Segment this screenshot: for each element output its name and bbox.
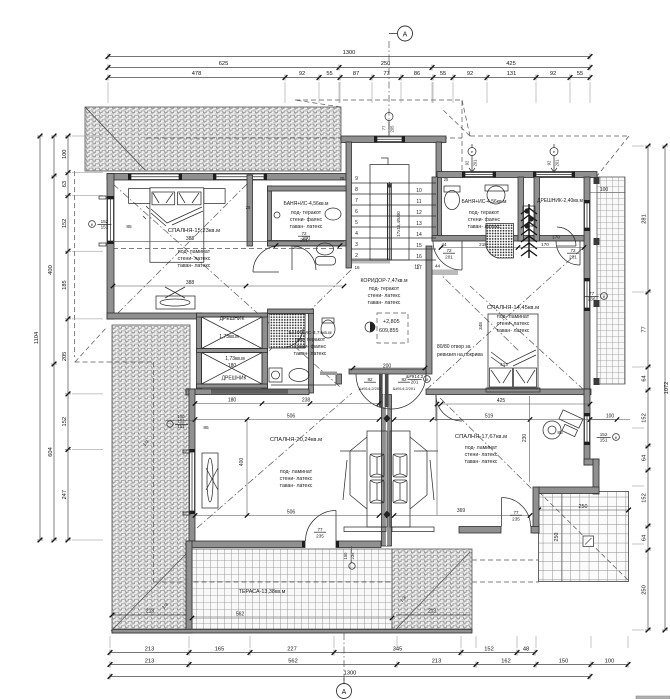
svg-text:165: 165 [215,646,225,652]
svg-text:100: 100 [606,414,615,420]
svg-text:КОРИДОР-7,47кв.м: КОРИДОР-7,47кв.м [360,278,407,284]
svg-text:1104: 1104 [34,332,40,344]
svg-text:236: 236 [350,552,355,560]
svg-text:213: 213 [146,609,155,615]
svg-text:под- ламинат: под- ламинат [497,314,530,320]
svg-text:609,855: 609,855 [379,328,399,334]
svg-text:100: 100 [178,414,186,419]
svg-text:152: 152 [642,413,648,423]
svg-text:77: 77 [317,527,323,532]
svg-text:162: 162 [501,658,511,664]
svg-text:72: 72 [570,248,576,253]
svg-text:1072: 1072 [664,382,670,395]
svg-text:201: 201 [569,254,577,259]
svg-text:85: 85 [126,224,132,230]
svg-text:A: A [342,689,347,696]
svg-text:85: 85 [203,425,209,431]
svg-text:213: 213 [145,646,155,652]
svg-text:2: 2 [355,253,358,259]
svg-text:478: 478 [192,71,202,77]
svg-text:235: 235 [512,516,520,521]
svg-text:400: 400 [48,265,54,275]
svg-text:82: 82 [401,377,407,382]
svg-text:ДРЕШНИК: ДРЕШНИК [222,376,247,382]
svg-text:604: 604 [48,447,54,457]
svg-text:213: 213 [432,658,442,664]
svg-text:625: 625 [219,61,229,67]
svg-text:+2,805: +2,805 [383,319,400,325]
svg-text:201: 201 [411,379,419,384]
svg-text:14: 14 [416,232,422,238]
svg-text:ТЕРАСА-13,38кв.м: ТЕРАСА-13,38кв.м [239,589,286,595]
svg-text:348: 348 [478,322,483,330]
svg-text:92: 92 [465,160,470,165]
svg-text:17x16,4/5/30: 17x16,4/5/30 [396,211,401,237]
svg-text:55: 55 [577,71,583,77]
svg-text:под- теракот: под- теракот [291,210,322,216]
svg-text:369: 369 [457,508,466,514]
svg-text:ревизия на покрива: ревизия на покрива [437,352,483,358]
svg-text:стени- фаянс: стени- фаянс [468,217,501,223]
svg-text:7: 7 [355,198,358,204]
svg-text:11: 11 [416,199,421,205]
svg-text:55: 55 [326,71,332,77]
svg-text:БАНЯ+ИС-3,74кв.м: БАНЯ+ИС-3,74кв.м [288,330,331,336]
svg-text:230: 230 [522,434,528,443]
svg-text:1300: 1300 [344,670,357,676]
svg-text:180: 180 [228,363,237,369]
svg-text:150: 150 [343,552,348,560]
svg-text:БАНЯ+ИС-4,56кв.м: БАНЯ+ИС-4,56кв.м [284,201,329,207]
svg-text:100: 100 [600,187,609,193]
svg-text:87: 87 [353,71,359,77]
svg-text:64: 64 [642,375,648,381]
svg-text:519: 519 [485,414,494,420]
svg-text:стени- латекс: стени- латекс [178,256,211,262]
svg-text:16: 16 [416,254,422,260]
svg-text:5: 5 [355,220,358,226]
svg-text:16: 16 [354,265,360,270]
svg-text:425: 425 [497,398,506,404]
svg-text:БАНЯ+ИС-4,56кв.м: БАНЯ+ИС-4,56кв.м [462,199,507,205]
svg-text:205: 205 [62,352,68,362]
svg-text:64: 64 [642,535,648,541]
svg-text:44: 44 [435,264,441,269]
svg-text:151: 151 [600,437,608,442]
svg-text:152: 152 [484,646,494,652]
svg-text:стени- латекс: стени- латекс [465,452,498,458]
svg-text:413: 413 [500,362,508,367]
svg-text:238: 238 [302,398,311,404]
svg-text:под- теракот: под- теракот [369,286,400,292]
svg-text:80/80 отвор за: 80/80 отвор за [437,344,471,350]
svg-text:200: 200 [383,364,392,370]
svg-text:201: 201 [473,159,478,167]
svg-text:3: 3 [355,242,358,248]
svg-text:235: 235 [316,533,324,538]
svg-text:213: 213 [145,658,155,664]
svg-text:400: 400 [239,458,245,467]
svg-text:под- теракот: под- теракот [469,210,500,216]
svg-text:1,73кв.м: 1,73кв.м [225,356,245,362]
svg-text:213: 213 [428,609,437,615]
svg-text:86: 86 [414,71,420,77]
svg-text:ДРЕШНИК: ДРЕШНИК [220,316,245,322]
svg-text:15: 15 [416,243,422,249]
svg-text:таван- латекс: таван- латекс [465,459,498,465]
svg-text:таван- латекс: таван- латекс [497,328,530,334]
svg-text:170: 170 [552,235,560,240]
svg-text:стени- латекс: стени- латекс [497,321,530,327]
svg-text:185: 185 [62,280,68,290]
svg-text:25: 25 [444,177,449,182]
svg-text:77: 77 [642,326,648,332]
svg-text:131: 131 [507,71,517,77]
svg-text:152: 152 [62,417,68,427]
svg-text:247: 247 [62,490,68,500]
svg-text:9: 9 [355,176,358,182]
svg-text:стени- латекс: стени- латекс [280,476,313,482]
svg-text:562: 562 [288,658,298,664]
svg-text:250: 250 [579,504,588,510]
svg-text:СПАЛНЯ-17,67кв.м: СПАЛНЯ-17,67кв.м [455,434,507,440]
svg-text:стени- фаянс: стени- фаянс [290,217,323,223]
svg-text:12: 12 [416,210,422,216]
svg-text:63: 63 [62,181,68,187]
svg-text:201: 201 [555,159,560,167]
svg-text:506: 506 [287,510,296,516]
svg-text:1300: 1300 [343,50,356,56]
svg-text:под- ламинат: под- ламинат [178,249,211,255]
svg-text:100: 100 [605,658,615,664]
svg-text:151: 151 [101,224,109,229]
svg-text:170: 170 [541,242,549,247]
svg-text:A: A [403,32,408,39]
svg-text:17: 17 [414,265,420,271]
svg-text:425: 425 [506,61,516,67]
svg-text:200: 200 [302,236,311,242]
svg-text:13: 13 [416,221,422,227]
svg-text:227: 227 [287,646,297,652]
svg-text:201: 201 [445,254,453,259]
svg-text:250: 250 [554,533,560,542]
svg-text:388: 388 [186,236,195,242]
svg-text:250: 250 [381,61,391,67]
svg-text:85: 85 [557,430,563,436]
svg-text:152: 152 [178,419,186,424]
svg-text:8: 8 [355,187,358,193]
svg-text:стени- латекс: стени- латекс [368,293,401,299]
svg-text:25: 25 [340,176,345,181]
svg-text:92: 92 [550,71,556,77]
svg-text:25: 25 [246,205,251,210]
svg-text:ДРЕШНИК-2,40кв.м: ДРЕШНИК-2,40кв.м [537,198,583,204]
svg-text:таван- латекс: таван- латекс [290,224,323,230]
svg-text:150: 150 [559,658,569,664]
svg-text:92: 92 [467,71,473,77]
svg-text:СПАЛНЯ-14,45кв.м: СПАЛНЯ-14,45кв.м [487,305,539,311]
svg-text:100: 100 [62,150,68,160]
svg-text:&#914;2/201: &#914;2/201 [359,386,382,391]
svg-text:72: 72 [446,248,452,253]
svg-text:205: 205 [390,125,395,133]
svg-text:77: 77 [382,125,387,130]
svg-text:92: 92 [299,71,305,77]
svg-text:48: 48 [523,646,529,652]
svg-text:СПАЛНЯ-15,23кв.м: СПАЛНЯ-15,23кв.м [168,228,220,234]
svg-text:под- ламинат: под- ламинат [280,469,313,475]
svg-text:152: 152 [62,219,68,229]
svg-text:стени- фаянс: стени- фаянс [294,344,327,350]
svg-text:таван- латекс: таван- латекс [294,351,327,357]
svg-text:180: 180 [228,398,237,404]
svg-text:82: 82 [367,377,373,382]
svg-text:388: 388 [186,280,195,286]
svg-text:10: 10 [416,188,422,194]
svg-text:&#914;2/201: &#914;2/201 [393,386,416,391]
svg-text:55: 55 [440,71,446,77]
svg-text:281: 281 [642,214,648,224]
svg-text:92: 92 [547,160,552,165]
svg-text:77: 77 [383,71,389,77]
svg-text:таван- латекс: таван- латекс [280,483,313,489]
svg-text:1,73кв.м: 1,73кв.м [219,334,239,340]
svg-text:64: 64 [642,455,648,461]
svg-text:под- теракот: под- теракот [295,337,326,343]
svg-text:таван- латекс: таван- латекс [368,300,401,306]
svg-text:77: 77 [513,510,519,515]
svg-text:345: 345 [393,646,403,652]
svg-text:506: 506 [287,414,296,420]
svg-text:4: 4 [355,231,358,237]
svg-text:218: 218 [479,242,487,247]
svg-text:30: 30 [293,245,298,250]
svg-text:таван- латекс: таван- латекс [178,263,211,269]
svg-text:44: 44 [441,242,447,247]
svg-text:6: 6 [355,209,358,215]
svg-text:250: 250 [642,585,648,595]
svg-text:таван- латекс: таван- латекс [468,224,501,230]
svg-text:152: 152 [642,493,648,503]
svg-text:под- ламинат: под- ламинат [465,445,498,451]
svg-text:СПАЛНЯ-20,24кв.м: СПАЛНЯ-20,24кв.м [270,437,322,443]
svg-text:562: 562 [236,612,245,618]
svg-text:236: 236 [588,296,596,301]
